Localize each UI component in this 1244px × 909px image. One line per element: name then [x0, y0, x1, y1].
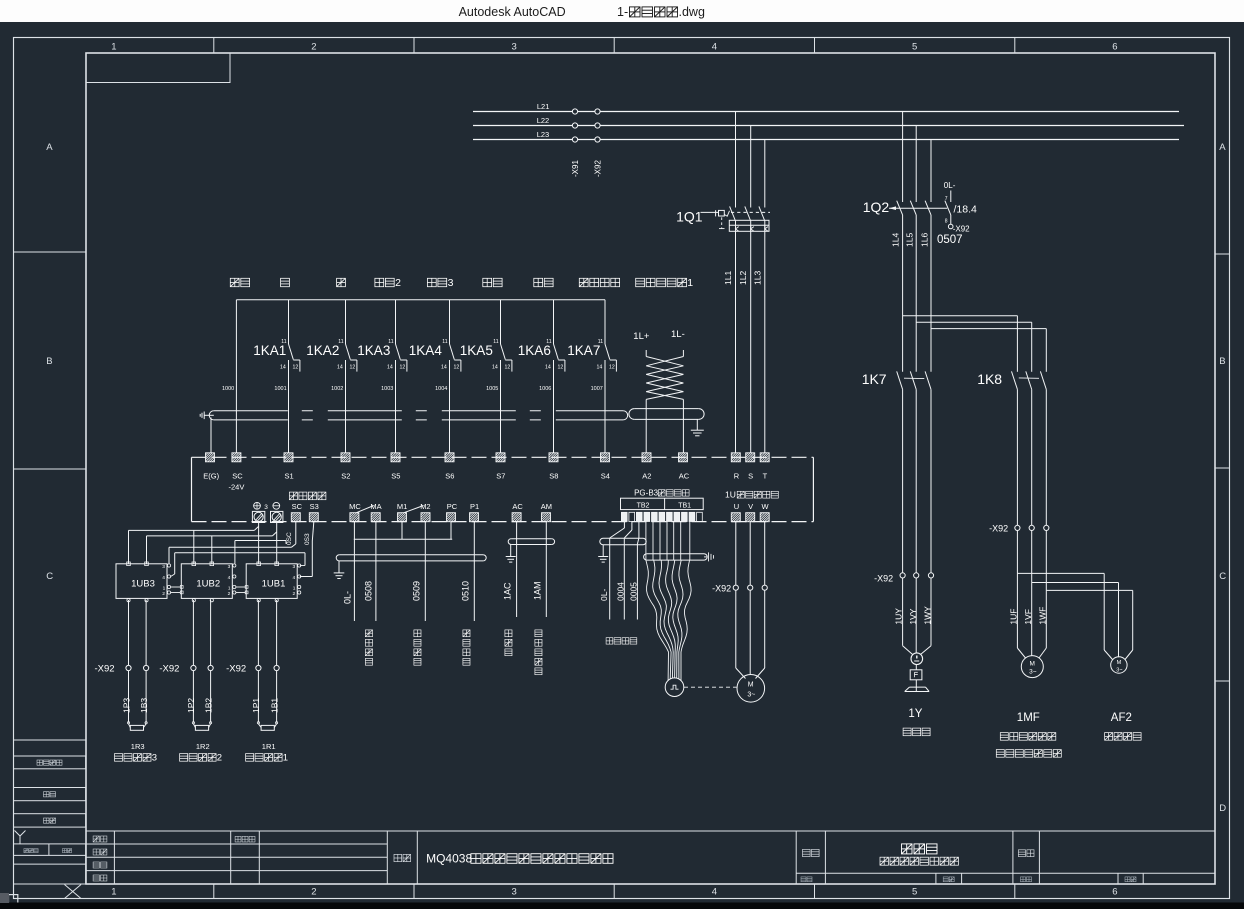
svg-text:2: 2 — [293, 591, 296, 597]
svg-text:SC: SC — [232, 472, 243, 481]
svg-text:1B1: 1B1 — [269, 698, 279, 713]
svg-text:TB2: TB2 — [637, 503, 650, 510]
svg-text:-X92: -X92 — [874, 574, 893, 584]
svg-text:4: 4 — [228, 575, 231, 581]
svg-text:0507: 0507 — [937, 234, 963, 246]
svg-text:S2: S2 — [341, 472, 350, 481]
svg-text:SC: SC — [292, 502, 303, 511]
svg-text:1L6: 1L6 — [920, 233, 930, 247]
svg-text:0509: 0509 — [412, 581, 422, 601]
svg-text:1004: 1004 — [435, 386, 447, 392]
svg-text:-X92: -X92 — [226, 664, 246, 675]
svg-text:1KA4: 1KA4 — [409, 343, 443, 358]
svg-text:-24V: -24V — [229, 483, 245, 492]
svg-text:0508: 0508 — [364, 581, 374, 601]
svg-text:-X92: -X92 — [593, 160, 602, 177]
svg-text:1: 1 — [283, 753, 288, 764]
svg-text:1L+: 1L+ — [633, 331, 650, 342]
svg-text:A: A — [46, 142, 53, 153]
svg-text:S1: S1 — [285, 472, 294, 481]
svg-text:Autodesk AutoCAD: Autodesk AutoCAD — [459, 5, 566, 19]
svg-text:S6: S6 — [445, 472, 454, 481]
svg-text:1KA6: 1KA6 — [518, 343, 551, 358]
svg-text:3: 3 — [264, 504, 268, 511]
svg-text:-X91: -X91 — [571, 160, 580, 177]
svg-text:1L1: 1L1 — [723, 271, 733, 285]
svg-text:1005: 1005 — [486, 386, 498, 392]
svg-text:1Y: 1Y — [908, 708, 922, 720]
svg-text:L21: L21 — [537, 102, 550, 111]
svg-text:1P2: 1P2 — [186, 698, 196, 713]
svg-text:0L-: 0L- — [944, 181, 956, 190]
svg-text:1: 1 — [111, 887, 116, 898]
svg-text:-X92: -X92 — [712, 584, 731, 594]
svg-text:3: 3 — [152, 753, 157, 764]
svg-text:3~: 3~ — [747, 692, 755, 699]
svg-text:V: V — [748, 502, 753, 511]
svg-text:U: U — [734, 502, 739, 511]
svg-text:MQ4038: MQ4038 — [426, 852, 472, 866]
svg-text:L22: L22 — [537, 116, 550, 125]
svg-text:1MF: 1MF — [1017, 712, 1040, 724]
svg-text:-X92: -X92 — [953, 225, 970, 234]
svg-text:1L5: 1L5 — [905, 233, 915, 247]
svg-text:11: 11 — [493, 339, 498, 345]
svg-text:2: 2 — [228, 591, 231, 597]
svg-text:0005: 0005 — [629, 582, 639, 601]
svg-text:C: C — [1219, 571, 1226, 582]
svg-text:1KA1: 1KA1 — [253, 343, 286, 358]
svg-text:14: 14 — [492, 365, 498, 371]
svg-text:11: 11 — [442, 339, 447, 345]
svg-text:1AC: 1AC — [503, 582, 513, 600]
svg-text:1AM: 1AM — [533, 581, 543, 600]
svg-text:1KA5: 1KA5 — [460, 343, 493, 358]
svg-text:1Q2: 1Q2 — [863, 199, 890, 215]
svg-text:0L-: 0L- — [599, 589, 609, 601]
svg-text:14: 14 — [597, 365, 603, 371]
svg-text:S3: S3 — [310, 502, 319, 511]
svg-text:-X92: -X92 — [989, 524, 1008, 534]
svg-text:3: 3 — [162, 564, 165, 570]
svg-text:1P1: 1P1 — [251, 698, 261, 713]
svg-text:S: S — [748, 472, 753, 481]
svg-text:4: 4 — [712, 42, 717, 53]
svg-text:12: 12 — [505, 365, 511, 371]
svg-text:1B3: 1B3 — [139, 698, 149, 713]
svg-text:1K7: 1K7 — [862, 371, 887, 387]
svg-text:B: B — [46, 356, 52, 367]
svg-text:4: 4 — [712, 887, 717, 898]
svg-text:PC: PC — [447, 502, 458, 511]
svg-text:T: T — [763, 472, 768, 481]
svg-text:6: 6 — [1112, 887, 1117, 898]
svg-text:.dwg: .dwg — [679, 5, 705, 19]
svg-text:2: 2 — [311, 887, 316, 898]
svg-text:14: 14 — [545, 365, 551, 371]
svg-text:S4: S4 — [601, 472, 610, 481]
svg-text:1003: 1003 — [381, 386, 393, 392]
svg-text:AF2: AF2 — [1111, 712, 1132, 724]
svg-text:1L4: 1L4 — [891, 233, 901, 247]
svg-text:5: 5 — [912, 887, 917, 898]
svg-text:1KA2: 1KA2 — [306, 343, 339, 358]
svg-text:1U: 1U — [725, 490, 736, 500]
svg-text:3: 3 — [512, 42, 517, 53]
svg-text:2: 2 — [162, 591, 165, 597]
svg-text:0510: 0510 — [461, 581, 471, 601]
svg-text:1: 1 — [228, 586, 231, 592]
svg-text:-X92: -X92 — [159, 664, 179, 675]
svg-text:5: 5 — [912, 42, 917, 53]
svg-text:1R2: 1R2 — [196, 742, 210, 751]
svg-text:2: 2 — [311, 42, 316, 53]
svg-text:1KA7: 1KA7 — [567, 343, 600, 358]
svg-text:12: 12 — [558, 365, 564, 371]
svg-text:-X92: -X92 — [95, 664, 115, 675]
svg-text:1P3: 1P3 — [121, 698, 131, 713]
svg-text:8: 8 — [945, 219, 948, 225]
svg-text:S7: S7 — [496, 472, 505, 481]
svg-text:1-: 1- — [617, 5, 628, 19]
svg-text:1006: 1006 — [539, 386, 551, 392]
svg-text:1L-: 1L- — [671, 329, 685, 340]
svg-text:M: M — [1030, 661, 1035, 668]
svg-text:PG-B3: PG-B3 — [634, 489, 659, 498]
svg-text:12: 12 — [293, 365, 299, 371]
svg-text:M1: M1 — [397, 502, 407, 511]
svg-text:4: 4 — [162, 575, 165, 581]
svg-text:1: 1 — [687, 277, 693, 289]
svg-text:6: 6 — [1112, 42, 1117, 53]
svg-text:3~: 3~ — [1116, 668, 1122, 674]
svg-text:1UB1: 1UB1 — [262, 579, 286, 590]
svg-text:1000: 1000 — [222, 386, 234, 392]
svg-text:D: D — [1219, 803, 1226, 814]
svg-text:1L3: 1L3 — [753, 271, 763, 285]
svg-text:14: 14 — [441, 365, 447, 371]
svg-text:4: 4 — [293, 575, 296, 581]
svg-text:1L2: 1L2 — [738, 271, 748, 285]
svg-text:1KA3: 1KA3 — [357, 343, 390, 358]
svg-text:TB1: TB1 — [678, 503, 691, 510]
svg-text:1K8: 1K8 — [977, 371, 1002, 387]
svg-text:L23: L23 — [537, 130, 550, 139]
svg-text:E(G): E(G) — [203, 472, 219, 481]
svg-text:1007: 1007 — [591, 386, 603, 392]
svg-text:1001: 1001 — [274, 386, 286, 392]
svg-text:14: 14 — [387, 365, 393, 371]
svg-text:14: 14 — [337, 365, 343, 371]
svg-text:12: 12 — [454, 365, 460, 371]
svg-text:1: 1 — [163, 586, 166, 592]
svg-text:3: 3 — [448, 277, 454, 289]
svg-text:M: M — [748, 682, 754, 689]
svg-text:3: 3 — [228, 564, 231, 570]
svg-text:2: 2 — [395, 277, 401, 289]
svg-text:MC: MC — [349, 502, 361, 511]
svg-text:1R3: 1R3 — [131, 742, 145, 751]
svg-text:1B2: 1B2 — [203, 698, 213, 713]
svg-text:A: A — [1219, 142, 1226, 153]
svg-text:1002: 1002 — [331, 386, 343, 392]
svg-text:W: W — [762, 502, 770, 511]
svg-text:AC: AC — [679, 472, 690, 481]
svg-text:3~: 3~ — [1029, 669, 1037, 676]
svg-text:P1: P1 — [470, 502, 479, 511]
svg-text:A2: A2 — [642, 472, 651, 481]
svg-text:C: C — [46, 571, 53, 582]
svg-text:1: 1 — [111, 42, 116, 53]
svg-text:14: 14 — [280, 365, 286, 371]
svg-text:/18.4: /18.4 — [954, 204, 978, 216]
svg-text:1: 1 — [293, 586, 296, 592]
svg-text:12: 12 — [609, 365, 615, 371]
svg-text:S5: S5 — [391, 472, 400, 481]
svg-text:S8: S8 — [549, 472, 558, 481]
svg-text:12: 12 — [400, 365, 406, 371]
svg-text:0L-: 0L- — [343, 591, 353, 604]
svg-text:3: 3 — [293, 564, 296, 570]
svg-text:AM: AM — [541, 502, 552, 511]
svg-text:2: 2 — [217, 753, 222, 764]
svg-text:1Q1: 1Q1 — [676, 209, 703, 225]
svg-text:3: 3 — [512, 887, 517, 898]
svg-text:R: R — [734, 472, 740, 481]
svg-text:0S3: 0S3 — [304, 533, 311, 545]
svg-text:1R1: 1R1 — [262, 742, 276, 751]
svg-text:AC: AC — [512, 502, 523, 511]
svg-text:M: M — [1117, 660, 1122, 666]
svg-text:0004: 0004 — [615, 582, 625, 601]
svg-text:1UB2: 1UB2 — [196, 579, 220, 590]
svg-text:1UB3: 1UB3 — [131, 579, 155, 590]
svg-text:12: 12 — [350, 365, 356, 371]
svg-text:0SC: 0SC — [286, 532, 293, 545]
svg-text:B: B — [1219, 356, 1225, 367]
